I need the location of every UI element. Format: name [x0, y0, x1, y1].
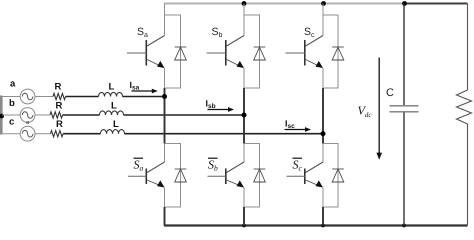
svg-text:R: R: [56, 101, 63, 112]
IGBT Sc-bar lower: emitter slant with arrow: [306, 180, 323, 188]
wire R to L phase c: [63, 133, 100, 135]
Vdc arrow: [376, 58, 382, 160]
IGBT upper leg c: collector wire: [322, 4, 324, 36]
svg-text:L: L: [113, 119, 119, 130]
current arrow Isc: [285, 127, 312, 132]
node: bottom rail junction leg3: [321, 224, 325, 228]
diode Da2 (lower): [175, 169, 187, 182]
neutral bus bar (left): [0, 96, 3, 135]
node: neutral junction dot: [0, 114, 4, 119]
resistor R phase c: [51, 131, 64, 137]
node phase a junction dot: [162, 94, 167, 99]
inductor L phase a: [99, 92, 123, 96]
voltage source c: [20, 126, 35, 141]
wire neutral to source a: [2, 96, 20, 98]
IGBT lower leg c: collector wire: [322, 144, 324, 163]
svg-text:R: R: [56, 119, 63, 130]
wire neutral to source b: [2, 114, 20, 116]
capacitor branch lower wire: [403, 113, 405, 226]
freewheel diode loop lower leg c: [323, 144, 338, 208]
IGBT Sb-bar lower: emitter slant with arrow: [227, 180, 244, 188]
IGBT Sb-bar lower: gate wire: [208, 175, 226, 177]
wire R to L phase a: [66, 96, 99, 98]
wire lower emitter to bottom leg c: [322, 188, 324, 208]
inductor L phase c: [101, 130, 125, 134]
diode Dc2 (lower): [332, 169, 344, 182]
IGBT Sb upper: collector slant: [227, 36, 244, 47]
leg a middle dark wire: [164, 88, 166, 144]
leg c bottom dark wire: [322, 207, 324, 226]
svg-text:L: L: [111, 101, 117, 112]
wire L to leg3 node (phase c): [125, 133, 324, 135]
node: bottom rail junction capacitor: [402, 224, 406, 228]
IGBT upper leg a: collector wire: [164, 4, 166, 36]
resistor R phase a: [53, 93, 66, 99]
wire emitter to phase node leg a: [164, 68, 166, 88]
IGBT Sa-bar lower: bar: [145, 169, 147, 185]
IGBT Sa upper: bar: [145, 40, 147, 66]
svg-text:C: C: [386, 87, 394, 99]
IGBT Sb upper: gate wire: [207, 52, 226, 54]
IGBT Sc-bar lower: bar: [304, 169, 306, 185]
IGBT Sb-bar lower: bar: [225, 169, 227, 185]
node phase c junction dot: [321, 131, 326, 136]
leg b bottom dark wire: [243, 207, 245, 226]
IGBT Sa-bar lower: emitter slant with arrow: [147, 180, 164, 188]
wire lower emitter to bottom leg b: [243, 188, 245, 208]
resistor R phase b: [50, 112, 63, 118]
diode Dc1 (upper): [332, 47, 344, 60]
wire source c to R: [35, 133, 51, 135]
freewheel diode loop lower leg b: [244, 144, 260, 208]
top DC rail (right dark segment): [404, 3, 468, 5]
IGBT Sc-bar lower: gate wire: [287, 175, 305, 177]
freewheel diode loop upper leg c: [323, 15, 338, 88]
voltage source a: [20, 89, 35, 104]
voltage source b: [20, 108, 35, 126]
capacitor C plates: [390, 106, 419, 112]
svg-text:R: R: [55, 81, 62, 92]
label Sb-bar: [208, 158, 218, 173]
svg-text:b: b: [9, 98, 15, 109]
IGBT Sc upper: emitter slant with arrow: [306, 60, 323, 69]
IGBT Sa upper: gate wire: [127, 52, 146, 54]
wire L to leg2 node (phase b): [124, 114, 245, 116]
wire L to leg1 node (phase a): [123, 96, 165, 98]
current arrow Isa: [132, 89, 158, 94]
IGBT Sc-bar lower: collector slant: [306, 162, 323, 173]
right side vertical wire lower: [467, 124, 469, 226]
IGBT Sa-bar lower: gate wire: [128, 175, 146, 177]
IGBT lower leg b: collector wire: [243, 144, 245, 163]
IGBT Sb upper: bar: [225, 40, 227, 66]
wire emitter to phase node leg b: [243, 68, 245, 88]
IGBT lower leg a: collector wire: [164, 144, 166, 163]
bottom DC rail: [164, 224, 468, 226]
svg-text:L: L: [109, 81, 115, 92]
wire source b to R: [35, 114, 50, 116]
leg c middle dark wire: [322, 88, 324, 144]
inductor L phase b: [100, 111, 124, 115]
wire neutral to source c: [2, 133, 20, 135]
IGBT Sc upper: bar: [304, 40, 306, 66]
node: bottom rail junction leg2: [242, 224, 246, 228]
capacitor branch upper wire: [403, 4, 405, 106]
node: top rail junction leg2: [242, 1, 247, 6]
svg-text:c: c: [9, 117, 14, 128]
IGBT Sc upper: gate wire: [286, 52, 305, 54]
IGBT Sb-bar lower: collector slant: [227, 162, 244, 173]
IGBT Sa-bar lower: collector slant: [147, 162, 164, 173]
wire emitter to phase node leg c: [322, 68, 324, 88]
IGBT Sc upper: collector slant: [306, 36, 323, 47]
leg a bottom dark wire: [164, 207, 166, 226]
diode Db1 (upper): [254, 47, 266, 60]
freewheel diode loop upper leg b: [244, 15, 260, 88]
wire lower emitter to bottom leg a: [164, 188, 166, 208]
IGBT upper leg b: collector wire: [243, 4, 245, 36]
right side vertical wire (load branch): [467, 4, 469, 91]
freewheel diode loop upper leg a: [165, 15, 181, 88]
node phase b junction dot: [242, 113, 247, 118]
wire source a to R: [35, 96, 53, 98]
node: top rail junction capacitor: [402, 1, 407, 6]
current arrow Isb: [208, 107, 235, 112]
IGBT Sa upper: emitter slant with arrow: [147, 60, 164, 69]
label Sc-bar: [293, 158, 303, 173]
diode Db2 (lower): [254, 169, 266, 182]
node: top rail junction leg3: [321, 1, 326, 6]
IGBT Sa upper: collector slant: [147, 36, 164, 47]
wire R to L phase b: [63, 114, 100, 116]
load resistor zigzag: [457, 90, 472, 124]
freewheel diode loop lower leg a: [165, 144, 181, 208]
leg b middle dark wire: [243, 88, 245, 144]
diode Da1 (upper): [175, 47, 187, 60]
top DC rail (left light segment): [164, 3, 404, 5]
svg-text:a: a: [10, 79, 16, 90]
IGBT Sb upper: emitter slant with arrow: [227, 60, 244, 69]
label Sa-bar: [134, 158, 144, 173]
